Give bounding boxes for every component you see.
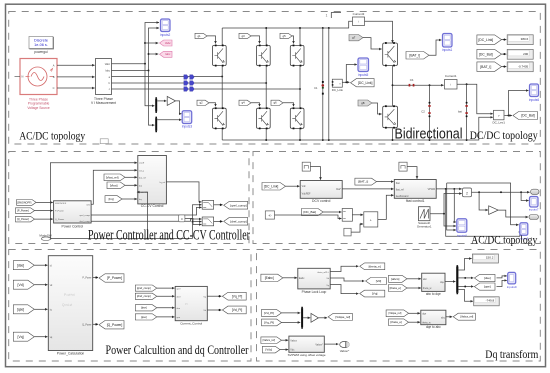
- subsystem CC-CV Control: [138, 156, 167, 204]
- three-phase programmable voltage source: [15, 59, 58, 110]
- wire abc out: [446, 316, 452, 318]
- wire Irq: [122, 198, 137, 200]
- wire g8: [372, 103, 382, 114]
- svg-text:bat: bat: [458, 110, 462, 114]
- wire DC_Bat to mux: [323, 211, 341, 213]
- wire Vd_PI to mux: [282, 312, 301, 314]
- wire fragment top: [331, 13, 341, 19]
- svg-text:CC-CV Control: CC-CV Control: [141, 204, 164, 208]
- svg-text:Q=vi-vi: Q=vi-vi: [62, 303, 72, 307]
- wire ModeSW to switch1: [193, 205, 202, 239]
- output indicator Vabon: [340, 341, 350, 353]
- svg-text:DCV control: DCV control: [312, 199, 331, 203]
- svg-text:Vabon*: Vabon*: [340, 349, 350, 353]
- wire gain to scope inputs3: [176, 101, 182, 114]
- svg-text:Q_Powe: Q_Powe: [82, 323, 92, 326]
- current measurement Current3: [353, 12, 365, 26]
- from tag BAT_I (control): [355, 178, 377, 185]
- wire source A to measurement: [57, 64, 95, 66]
- IGBT Q7: [383, 42, 398, 66]
- gain triangle: [167, 96, 175, 105]
- svg-text:[P_Power]: [P_Power]: [17, 209, 29, 212]
- subsystem Power Control: [54, 201, 92, 223]
- from tag dse: [13, 261, 34, 270]
- from tag SWONOFF: [17, 200, 37, 206]
- from tag P_Power: [16, 208, 35, 214]
- svg-text:[Vabcs_ref]: [Vabcs_ref]: [263, 339, 276, 342]
- scope inputs8: [520, 223, 528, 236]
- svg-text:[qref_comp]: [qref_comp]: [230, 203, 246, 207]
- svg-text:[dse]: [dse]: [141, 306, 147, 310]
- svg-text:[qse]: [qse]: [484, 285, 491, 289]
- svg-text:Iabc: Iabc: [165, 52, 171, 56]
- svg-text:inputs1: inputs1: [442, 48, 453, 52]
- wire Iabc branch to tag: [148, 53, 150, 55]
- constant block small: [344, 228, 351, 236]
- svg-text:inputs7: inputs7: [529, 207, 539, 211]
- wire VPWM to bottom bus wire: [446, 189, 520, 236]
- gate tag g4: [239, 100, 251, 105]
- svg-text:Vabon*: Vabon*: [315, 343, 323, 346]
- svg-text:[BAT_I]: [BAT_I]: [480, 65, 491, 69]
- wire demux to qse: [458, 286, 473, 288]
- wire DC_Lev1 to goto DC_Bat: [505, 115, 512, 117]
- svg-text:P_Powe: P_Powe: [82, 277, 92, 280]
- from tag Vabcs_ref (svpwm): [261, 337, 282, 344]
- scope inputs7: [530, 197, 539, 208]
- svg-text:[Vbat]: [Vbat]: [110, 183, 118, 187]
- gate tag g7: [349, 35, 363, 41]
- capacitor C2 marks: [428, 102, 430, 117]
- wire constant to switch2: [185, 218, 202, 224]
- from tag dse (dq): [135, 305, 157, 311]
- svg-text:Discrete: Discrete: [34, 39, 48, 43]
- from tag theta_e (abc2dqe): [389, 285, 408, 292]
- wire Vbat: [125, 184, 137, 186]
- three-phase V I measurement block: [91, 59, 116, 106]
- wire mux2 to scope inputs3: [157, 119, 181, 121]
- svg-text:theta_w: theta_w: [422, 321, 431, 324]
- svg-text:[Irq]: [Irq]: [109, 197, 114, 201]
- wire theta_e2: [409, 321, 421, 323]
- svg-text:inputs3: inputs3: [182, 124, 193, 128]
- svg-text:SVPWM using offset voltage: SVPWM using offset voltage: [288, 353, 326, 357]
- gain2 block: [463, 188, 472, 197]
- scope inputs2: [161, 19, 171, 32]
- svg-text:inputs9: inputs9: [507, 285, 517, 289]
- IGBT Q2: [213, 107, 227, 129]
- svg-text:Generator1: Generator1: [417, 225, 432, 229]
- svg-text:Current_Control: Current_Control: [180, 322, 202, 326]
- svg-text:P=vi+vi: P=vi+vi: [64, 293, 75, 297]
- svg-text:Current3: Current3: [353, 12, 365, 16]
- bridge leg B wire: [265, 66, 267, 108]
- wire PLL out3: [330, 285, 358, 294]
- svg-text:[Vdqse_ref]: [Vdqse_ref]: [335, 315, 350, 319]
- gate tag g6: [271, 100, 283, 105]
- wire PLL out1: [330, 266, 358, 271]
- wire Eabc: [283, 277, 297, 279]
- wire g2: [209, 103, 216, 107]
- svg-text:Iabc: Iabc: [105, 70, 110, 73]
- wire dse2: [157, 307, 175, 309]
- ModeSW bus wire: [51, 238, 193, 240]
- from tag DC_Bat (control): [302, 209, 324, 216]
- svg-text:Current1: Current1: [445, 74, 457, 78]
- svg-text:powergui: powergui: [34, 50, 48, 54]
- svg-text:DC_Link: DC_Link: [332, 88, 344, 92]
- wire Power Control out1 to CC-CV in2: [91, 170, 137, 204]
- switch block 1: [202, 200, 213, 209]
- svg-text:Iq_ref: Iq_ref: [160, 181, 166, 184]
- wire memory1 to DCV top: [310, 167, 320, 180]
- wire DCV out to fbat in2: [342, 188, 393, 190]
- wire to scope inputs5: [346, 65, 357, 83]
- svg-text:PI: PI: [185, 302, 188, 306]
- wire theta_e1: [407, 287, 421, 289]
- wire demux to dse: [458, 277, 473, 279]
- svg-text:[DC_Bat]: [DC_Bat]: [303, 210, 316, 214]
- wire P_Power out: [93, 277, 98, 279]
- gate tag g1: [195, 33, 207, 38]
- svg-text:Vabcs: Vabcs: [290, 339, 297, 342]
- wire dqe out: [445, 281, 455, 283]
- display -0.7405: [507, 62, 533, 72]
- from tag dref_comp (dq): [135, 293, 157, 299]
- wire g6: [283, 103, 294, 107]
- IGBT Q3: [257, 45, 271, 67]
- svg-text:+: +: [370, 219, 372, 223]
- subsystem dqe to abc: [421, 310, 446, 325]
- svg-text:200: 200: [523, 52, 528, 56]
- wire source C to measurement: [57, 87, 95, 89]
- svg-text:fbat control1: fbat control1: [406, 199, 425, 203]
- svg-text:Ibat*: Ibat*: [336, 188, 341, 191]
- capacitor C2 branch: [429, 85, 431, 140]
- svg-text:[Eabc]: [Eabc]: [265, 276, 274, 280]
- from tag Vdc (svpwm): [262, 346, 280, 353]
- svg-text:[Vq_PI]: [Vq_PI]: [232, 294, 243, 298]
- subsystem SVPWM using offset voltage: [289, 336, 324, 352]
- svg-text:[theta_e]: [theta_e]: [369, 264, 381, 268]
- svg-text:[Vabcs_ref]: [Vabcs_ref]: [460, 315, 473, 319]
- wire demux to display top: [458, 259, 471, 271]
- demux bar dq: [456, 265, 458, 294]
- outport oval 1: [531, 189, 540, 194]
- section frame: Dq transform: [257, 250, 541, 362]
- goto tag DC_Bat: [513, 112, 538, 120]
- wire Vabc to scope: [112, 23, 160, 64]
- svg-text:swoff: swoff: [139, 163, 144, 165]
- svg-text:[DC_Link]: [DC_Link]: [358, 81, 373, 85]
- battery marks: [465, 102, 467, 117]
- wire comparator to outport2: [498, 210, 528, 217]
- wire Vbat_ref: [125, 176, 137, 178]
- memory block 1: [302, 162, 310, 171]
- wire DC_Link to DCV: [286, 185, 300, 187]
- IGBT Q4: [257, 107, 271, 129]
- svg-text:feedforward: feedforward: [396, 195, 409, 198]
- current measurement Current1: [445, 74, 458, 89]
- svg-text:-0.7405: -0.7405: [518, 64, 529, 68]
- gate tag g2: [197, 100, 209, 105]
- IGBT Q1: [213, 45, 227, 67]
- subsystem abc to dqe: [422, 273, 445, 291]
- section frame: AC/DC topology (controls): [253, 152, 540, 244]
- scope inputs3: [182, 111, 192, 124]
- wire to display1: [502, 39, 507, 41]
- svg-text:-K-: -K-: [268, 214, 272, 218]
- battery branch: [466, 84, 468, 140]
- wire Vdqse_ref: [409, 312, 420, 314]
- gain triangle dq: [311, 313, 318, 322]
- svg-text:Power Controller and CC-CV Co: Power Controller and CC-CV Controller: [88, 226, 250, 243]
- svg-text:Q_Power: Q_Power: [55, 218, 64, 221]
- goto tag Vabcs_ref: [453, 313, 475, 320]
- subsystem Current_Control: [175, 286, 207, 320]
- svg-text:[Vbat_ref]: [Vbat_ref]: [106, 175, 119, 179]
- wire mux to gain3: [303, 317, 310, 319]
- switch block 2: [202, 217, 213, 226]
- subsystem fbat control1: [394, 180, 436, 199]
- svg-text:bat_ref: bat_ref: [139, 176, 146, 179]
- goto tag Vq_PI: [222, 292, 246, 300]
- svg-text:[Q_Power]: [Q_Power]: [17, 218, 29, 221]
- DC link rail 2: [328, 28, 330, 140]
- goto tag Vd: [366, 278, 387, 285]
- wire Current1 to DC_Lev1: [457, 84, 493, 114]
- feedback wire to CC-CV in1: [50, 163, 137, 239]
- svg-text:[dse]: [dse]: [17, 263, 24, 267]
- DC link rail 1: [322, 28, 324, 140]
- comparator triangle: [489, 206, 499, 215]
- svg-text:[DC_Bat]: [DC_Bat]: [521, 114, 534, 118]
- svg-text:bat: bat: [139, 184, 142, 187]
- bridge leg C wire: [299, 66, 301, 108]
- svg-text:inputs5: inputs5: [358, 73, 369, 77]
- wire Generator1 to scope inputs4: [444, 214, 456, 226]
- phase bus A: [112, 76, 223, 78]
- section frame: Power Controller and CC-CV Controller: [9, 152, 249, 244]
- svg-text:[Vq]: [Vq]: [18, 335, 24, 339]
- mux bar 1: [155, 97, 157, 113]
- wire source B to measurement: [57, 76, 95, 78]
- from tag Vdqse_ref (dqe2abc): [386, 310, 409, 317]
- svg-text:[SWONOFF]: [SWONOFF]: [17, 201, 31, 204]
- goto tag Iabc (pink): [160, 51, 173, 57]
- bottom bus stubs: [221, 128, 223, 140]
- sum block: [364, 212, 378, 227]
- svg-text:dqe: dqe: [440, 281, 445, 284]
- wire Vabcs_ref to svpwm: [282, 339, 289, 341]
- svg-text:[qref_comp]: [qref_comp]: [137, 286, 151, 290]
- wire memory2 to fbat top: [407, 167, 417, 179]
- wire mux1 to gain: [157, 100, 166, 102]
- svg-text:[Vd_PI]: [Vd_PI]: [264, 311, 274, 315]
- wire CC-CV out to switch1: [166, 182, 201, 202]
- svg-text:B: B: [53, 75, 55, 79]
- bridge leg A wire: [221, 66, 223, 108]
- svg-text:qref: qref: [177, 288, 181, 291]
- goto tag Q_Power: [99, 321, 124, 329]
- from tag BAT_I display: [477, 62, 502, 72]
- svg-text:AC/DC topology: AC/DC topology: [471, 235, 537, 247]
- svg-text:V I Measurement: V I Measurement: [91, 101, 116, 105]
- svg-text:Power_Calculation: Power_Calculation: [57, 351, 85, 355]
- wire Vq_PI out: [207, 295, 221, 297]
- from tag DC_Bat display: [477, 49, 502, 59]
- svg-text:[dref_comp]: [dref_comp]: [137, 294, 151, 298]
- IGBT Q5: [290, 45, 304, 67]
- wire demux to display bottom: [458, 290, 473, 302]
- svg-text:Cb: Cb: [410, 78, 414, 82]
- wire to comparator: [479, 192, 488, 210]
- wire switch2 out: [214, 220, 223, 222]
- svg-text:inputs6: inputs6: [529, 98, 540, 102]
- svg-text:[Vdqse_ref]: [Vdqse_ref]: [389, 312, 402, 315]
- svg-text:[Q_Power]: [Q_Power]: [107, 323, 123, 327]
- from tag Vbat: [107, 182, 125, 189]
- display 380.6: [507, 35, 533, 45]
- wire -K- to mux in2: [275, 215, 342, 219]
- svg-text:Power Calcultion and dq Cont: Power Calcultion and dq Controller: [106, 342, 250, 357]
- goto tag qse: [474, 283, 495, 290]
- svg-text:dqe to abc: dqe to abc: [426, 325, 441, 329]
- wire to scope inputs6: [509, 91, 529, 116]
- svg-text:P_Power: P_Power: [55, 210, 64, 213]
- wire BAT_I to scope inputs1: [429, 40, 441, 55]
- svg-text:[theta_e]: [theta_e]: [390, 320, 401, 324]
- svg-text:Vabc: Vabc: [105, 63, 111, 66]
- svg-text:g7: g7: [352, 36, 356, 40]
- goto-from pair A (blue): [184, 75, 194, 80]
- powergui block: [29, 37, 53, 54]
- svg-text:C1: C1: [314, 86, 318, 90]
- svg-text:[Vq]: [Vq]: [372, 292, 378, 296]
- wire to scope inputs9 a: [497, 276, 507, 278]
- from tag abcs: [389, 275, 408, 282]
- svg-text:[Vq_PI]: [Vq_PI]: [264, 321, 274, 325]
- svg-text:[dref_comp]: [dref_comp]: [230, 219, 246, 223]
- wire ModeSW to CC-CV in5: [137, 192, 148, 238]
- svg-text:C: C: [53, 86, 55, 90]
- svg-text:[DC_Bat]: [DC_Bat]: [479, 52, 493, 56]
- svg-text:[qse]: [qse]: [141, 315, 147, 319]
- wire g3: [251, 36, 260, 44]
- gate tag g8: [358, 100, 372, 106]
- wire BAT_I to fbat in1: [377, 181, 394, 183]
- goto tag Vd_PI: [222, 306, 246, 314]
- svg-text:inputs4: inputs4: [457, 234, 467, 238]
- svg-text:150.2: 150.2: [486, 256, 494, 260]
- wire Vd: [34, 284, 47, 286]
- from tag DC_Link (control): [262, 183, 286, 191]
- wire qse: [34, 308, 47, 310]
- svg-text:[Vd]: [Vd]: [18, 283, 24, 287]
- from tag BAT_I: [406, 52, 429, 60]
- scope inputs6: [530, 84, 539, 97]
- from tag qse (dq): [135, 314, 157, 320]
- memory block 2: [399, 162, 407, 171]
- goto tag Vq: [360, 290, 385, 297]
- goto-from pair B (blue): [184, 81, 194, 86]
- svg-text:theta_w: theta_w: [423, 287, 432, 290]
- wire Vd_PI out: [207, 309, 221, 311]
- wire Iabc to scope: [112, 28, 160, 71]
- svg-text:[abcs]: [abcs]: [391, 277, 399, 281]
- scope inputs9: [508, 272, 516, 284]
- svg-text:VPWM: VPWM: [428, 188, 435, 191]
- wire svpwm out: [324, 343, 338, 345]
- wire to display3: [502, 66, 507, 68]
- display qse value: [474, 297, 500, 306]
- svg-text:[qse]: [qse]: [17, 307, 24, 311]
- svg-text:C2: C2: [421, 110, 425, 114]
- wire g5: [292, 36, 294, 44]
- svg-text:Dq transform: Dq transform: [485, 349, 538, 361]
- subsystem DCV control: [300, 181, 342, 199]
- wire g1: [207, 36, 216, 44]
- svg-text:Voltage Source: Voltage Source: [27, 106, 50, 110]
- wire VPWM out to gain2: [436, 188, 462, 190]
- constant block a: [179, 215, 185, 222]
- wire abcs: [407, 278, 421, 280]
- wire g4: [251, 103, 260, 107]
- wire Power Control out3 to switch2: [91, 219, 201, 221]
- svg-text:DC_Lev1: DC_Lev1: [492, 121, 505, 125]
- section frame: Power Calcultion and dq Controller: [9, 250, 251, 362]
- gate tag g5: [280, 33, 292, 38]
- wire dse: [34, 264, 47, 266]
- from tag qref_comp (dq): [135, 285, 157, 291]
- svg-text:[dse]: [dse]: [484, 276, 491, 280]
- svg-text:1e-06 s.: 1e-06 s.: [34, 43, 48, 47]
- svg-text:-749.8: -749.8: [486, 298, 495, 302]
- goto tag Vdqse_ref: [328, 313, 352, 320]
- svg-text:inputs2: inputs2: [160, 33, 171, 37]
- svg-text:Phase Lock Loop: Phase Lock Loop: [302, 290, 327, 294]
- svg-text:[BAT_I]: [BAT_I]: [409, 53, 420, 57]
- subsystem Phase Lock Loop: [298, 268, 330, 289]
- from tag Vd_PI (ref): [262, 309, 282, 316]
- wire Vdc to svpwm: [280, 349, 288, 351]
- svg-text:[Vdc]: [Vdc]: [266, 348, 273, 352]
- gate tag g3: [239, 33, 251, 38]
- section frame: AC/DC topology (top): [9, 12, 541, 145]
- wire SWONOFF: [36, 201, 53, 203]
- svg-text:[Vd_PI]: [Vd_PI]: [232, 308, 243, 312]
- svg-text:1: 1: [326, 14, 328, 18]
- from tag Vd: [13, 280, 34, 289]
- wire g7: [363, 38, 382, 49]
- goto tag Vabc (pink): [160, 40, 173, 46]
- wire Vabc branch to tag: [144, 42, 146, 44]
- wire to display2: [502, 53, 507, 55]
- wire sum to feedforward: [378, 195, 394, 219]
- mux block small: [342, 209, 352, 222]
- voltage measurement DC_Lev1: [492, 110, 505, 124]
- wire Vabc down to mux: [144, 63, 146, 65]
- goto tag P_Power: [99, 274, 124, 282]
- PWM Generator1: [417, 207, 432, 229]
- from tag Vbat_ref: [104, 174, 125, 181]
- svg-text:Ibat: Ibat: [396, 182, 400, 185]
- phase bus C: [112, 88, 301, 90]
- svg-text:Power Control: Power Control: [62, 225, 84, 229]
- svg-text:qref_comp: qref_comp: [80, 214, 91, 217]
- svg-text:A: A: [53, 63, 55, 67]
- display 200: [507, 49, 533, 59]
